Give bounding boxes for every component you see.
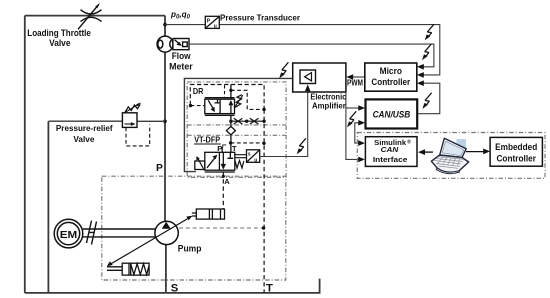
VT-DFP valve body bbox=[205, 147, 235, 172]
svg-text:A: A bbox=[224, 177, 230, 186]
wire: amplifier to solenoid bbox=[184, 78, 292, 171]
svg-text:Loading Throttle: Loading Throttle bbox=[27, 28, 91, 38]
wire: sensor feedback to amplifier bbox=[260, 92, 308, 157]
electric motor EM bbox=[54, 219, 83, 248]
DR valve body bbox=[205, 98, 235, 116]
shaft coupling break bbox=[87, 221, 97, 245]
node: orifice right junction on T line bbox=[262, 120, 265, 123]
svg-text:T: T bbox=[232, 144, 237, 153]
wire: P line flow meter to pump bbox=[164, 52, 166, 221]
VT-DFP solenoid bbox=[195, 161, 205, 170]
VT-DFP spring bbox=[235, 161, 244, 169]
svg-text:s: s bbox=[248, 151, 251, 157]
node: junction relief line / P line bbox=[163, 120, 167, 124]
node: junction top P line bbox=[163, 23, 167, 27]
svg-text:Controller: Controller bbox=[496, 152, 536, 163]
orifice 1 bbox=[234, 118, 243, 124]
node: DR pilot junction bbox=[189, 104, 192, 107]
svg-text:Pump: Pump bbox=[178, 243, 202, 253]
bolt 5 on feedback wire bbox=[297, 138, 306, 154]
DR right cell: through line with up arrow bbox=[230, 103, 232, 114]
wire: DR top pilot stub bbox=[230, 85, 232, 100]
bolt 2 below wire B bbox=[422, 44, 431, 60]
control cylinder bbox=[192, 209, 225, 219]
check valve diamond bbox=[226, 126, 235, 134]
pump drain dashed line (gray) bbox=[179, 227, 264, 229]
node: DR top pilot junction bbox=[229, 89, 232, 92]
inner dash-dot line upper bbox=[187, 124, 286, 126]
wire: P line top to flow meter bbox=[164, 16, 166, 37]
bolt 6 on amplifier monitor wire bbox=[347, 111, 356, 127]
micro controller box bbox=[365, 63, 417, 91]
svg-text:CAN: CAN bbox=[381, 145, 399, 154]
svg-text:Valve: Valve bbox=[73, 134, 94, 144]
wire: S line pump to tank bbox=[165, 245, 167, 293]
wire: pressure transducer signal (wire A) bbox=[165, 25, 440, 75]
wire: laptop to Embedded arrow bbox=[466, 151, 485, 153]
wire: CAN/USB to Simulink C-link bbox=[355, 123, 359, 143]
svg-text:u: u bbox=[214, 24, 217, 30]
motor shaft bbox=[83, 229, 155, 237]
DR pilot dashed line bbox=[191, 105, 205, 107]
wire: laptop to Simulink arrow bbox=[424, 151, 433, 153]
node: drain junction on T line bbox=[262, 226, 265, 229]
svg-text:Controller: Controller bbox=[371, 77, 410, 87]
bias piston with spring bbox=[107, 263, 149, 275]
DR top pilot dashed stub bbox=[224, 85, 226, 98]
node: orifice line left junction bbox=[229, 120, 232, 123]
electronic amplifier box bbox=[293, 63, 346, 92]
VT-DFP right cell down line bbox=[222, 152, 224, 167]
wire: relief-valve return vertical bbox=[47, 121, 49, 293]
wire: PWM micro controller to amplifier bbox=[353, 76, 365, 78]
svg-text:Pressure Transducer: Pressure Transducer bbox=[220, 12, 301, 22]
svg-text:PWM: PWM bbox=[347, 79, 363, 88]
DR spring pilot dashed path bbox=[231, 90, 264, 109]
pressure transducer bbox=[205, 16, 219, 28]
laptop highlight backdrop bbox=[457, 139, 467, 150]
amplifier inner symbol bbox=[300, 70, 316, 84]
svg-text:®: ® bbox=[407, 139, 411, 146]
pressure relief valve line bbox=[48, 120, 165, 122]
svg-text:DR: DR bbox=[193, 87, 204, 96]
VT-DFP P port stub bbox=[221, 147, 223, 152]
pump unit enclosure (gray dash-dot) bbox=[102, 176, 286, 280]
svg-text:EM: EM bbox=[60, 229, 78, 241]
svg-text:Electronic: Electronic bbox=[310, 93, 346, 102]
feedback arrow into amplifier bbox=[307, 88, 309, 93]
wire: CAN/USB to micro controller (wire C) bbox=[417, 83, 440, 114]
wire: left vertical return bbox=[24, 16, 26, 293]
node: junction on T line mid bbox=[262, 142, 265, 145]
svg-text:Valve: Valve bbox=[49, 38, 70, 48]
svg-text:Micro: Micro bbox=[380, 66, 403, 76]
node: orifice middle junction bbox=[245, 120, 248, 123]
position sensor s/u box bbox=[247, 150, 260, 163]
svg-text:P: P bbox=[156, 163, 163, 174]
DR spring bbox=[235, 95, 242, 108]
A port dashed line bbox=[222, 172, 224, 209]
svg-text:p0,q0: p0,q0 bbox=[170, 10, 191, 21]
Embedded Controller box bbox=[490, 137, 542, 166]
inner dash-dot line lower bbox=[187, 134, 286, 136]
node: A line junction bbox=[222, 175, 225, 178]
DR left cell: blocked port bbox=[215, 99, 221, 103]
remote dash-dot enclosure bbox=[357, 133, 545, 179]
flow meter pickup box bbox=[173, 39, 189, 50]
dashed branch to T line bbox=[231, 142, 264, 144]
orifice 2 bbox=[250, 118, 259, 124]
svg-text:Amplifier: Amplifier bbox=[312, 102, 347, 111]
svg-text:CAN/USB: CAN/USB bbox=[373, 109, 411, 120]
node: junction on T line upper bbox=[262, 108, 265, 111]
pump bbox=[155, 221, 178, 244]
VT-DFP left cell diagonal arrow bbox=[207, 156, 216, 168]
node: T branch junction bbox=[229, 141, 232, 144]
DR left cell: diagonal flow arrow bbox=[208, 100, 214, 110]
laptop bbox=[431, 138, 468, 173]
bolt 1 on flow meter wire corner bbox=[425, 24, 434, 40]
Simulink CAN Interface box bbox=[365, 137, 417, 167]
flow meter bbox=[157, 36, 173, 52]
valve unit enclosure (gray dash-dot) bbox=[187, 82, 286, 177]
loading throttle valve symbol bbox=[78, 3, 102, 29]
VT-DFP right cell blocked port bbox=[227, 152, 233, 158]
relief valve pilot dashed line bbox=[126, 125, 150, 146]
bolt 4 on amplifier-solenoid wire bbox=[279, 62, 288, 78]
T return dashed line bbox=[263, 109, 265, 293]
bolt 3 on CAN/USB wire bbox=[422, 93, 431, 109]
svg-text:S: S bbox=[171, 283, 179, 295]
svg-text:Meter: Meter bbox=[169, 62, 193, 72]
wire: flow meter signal (wire B) bbox=[189, 44, 434, 67]
svg-text:Interface: Interface bbox=[373, 155, 407, 164]
wire: amplifier down to CAN/USB and Simulink bbox=[346, 92, 359, 159]
DR dashed enclosure bbox=[190, 85, 264, 109]
wire: diamond to VT-DFP T port bbox=[230, 135, 232, 153]
pressure relief valve bbox=[122, 103, 140, 127]
wire: DR to orifice line bbox=[230, 115, 232, 126]
pump variable displacement arrow bbox=[110, 217, 190, 264]
svg-text:u: u bbox=[254, 157, 257, 163]
svg-text:T: T bbox=[266, 283, 273, 295]
wire: bottom tank line bbox=[25, 279, 320, 293]
svg-text:Pressure-relief: Pressure-relief bbox=[56, 123, 113, 133]
svg-text:Flow: Flow bbox=[172, 51, 192, 61]
wire: top supply line bbox=[25, 16, 320, 293]
CAN/USB box bbox=[366, 99, 418, 128]
VT-DFP sensor stem bbox=[235, 155, 247, 158]
orifice line bbox=[231, 120, 264, 122]
svg-text:Embedded: Embedded bbox=[495, 141, 537, 152]
